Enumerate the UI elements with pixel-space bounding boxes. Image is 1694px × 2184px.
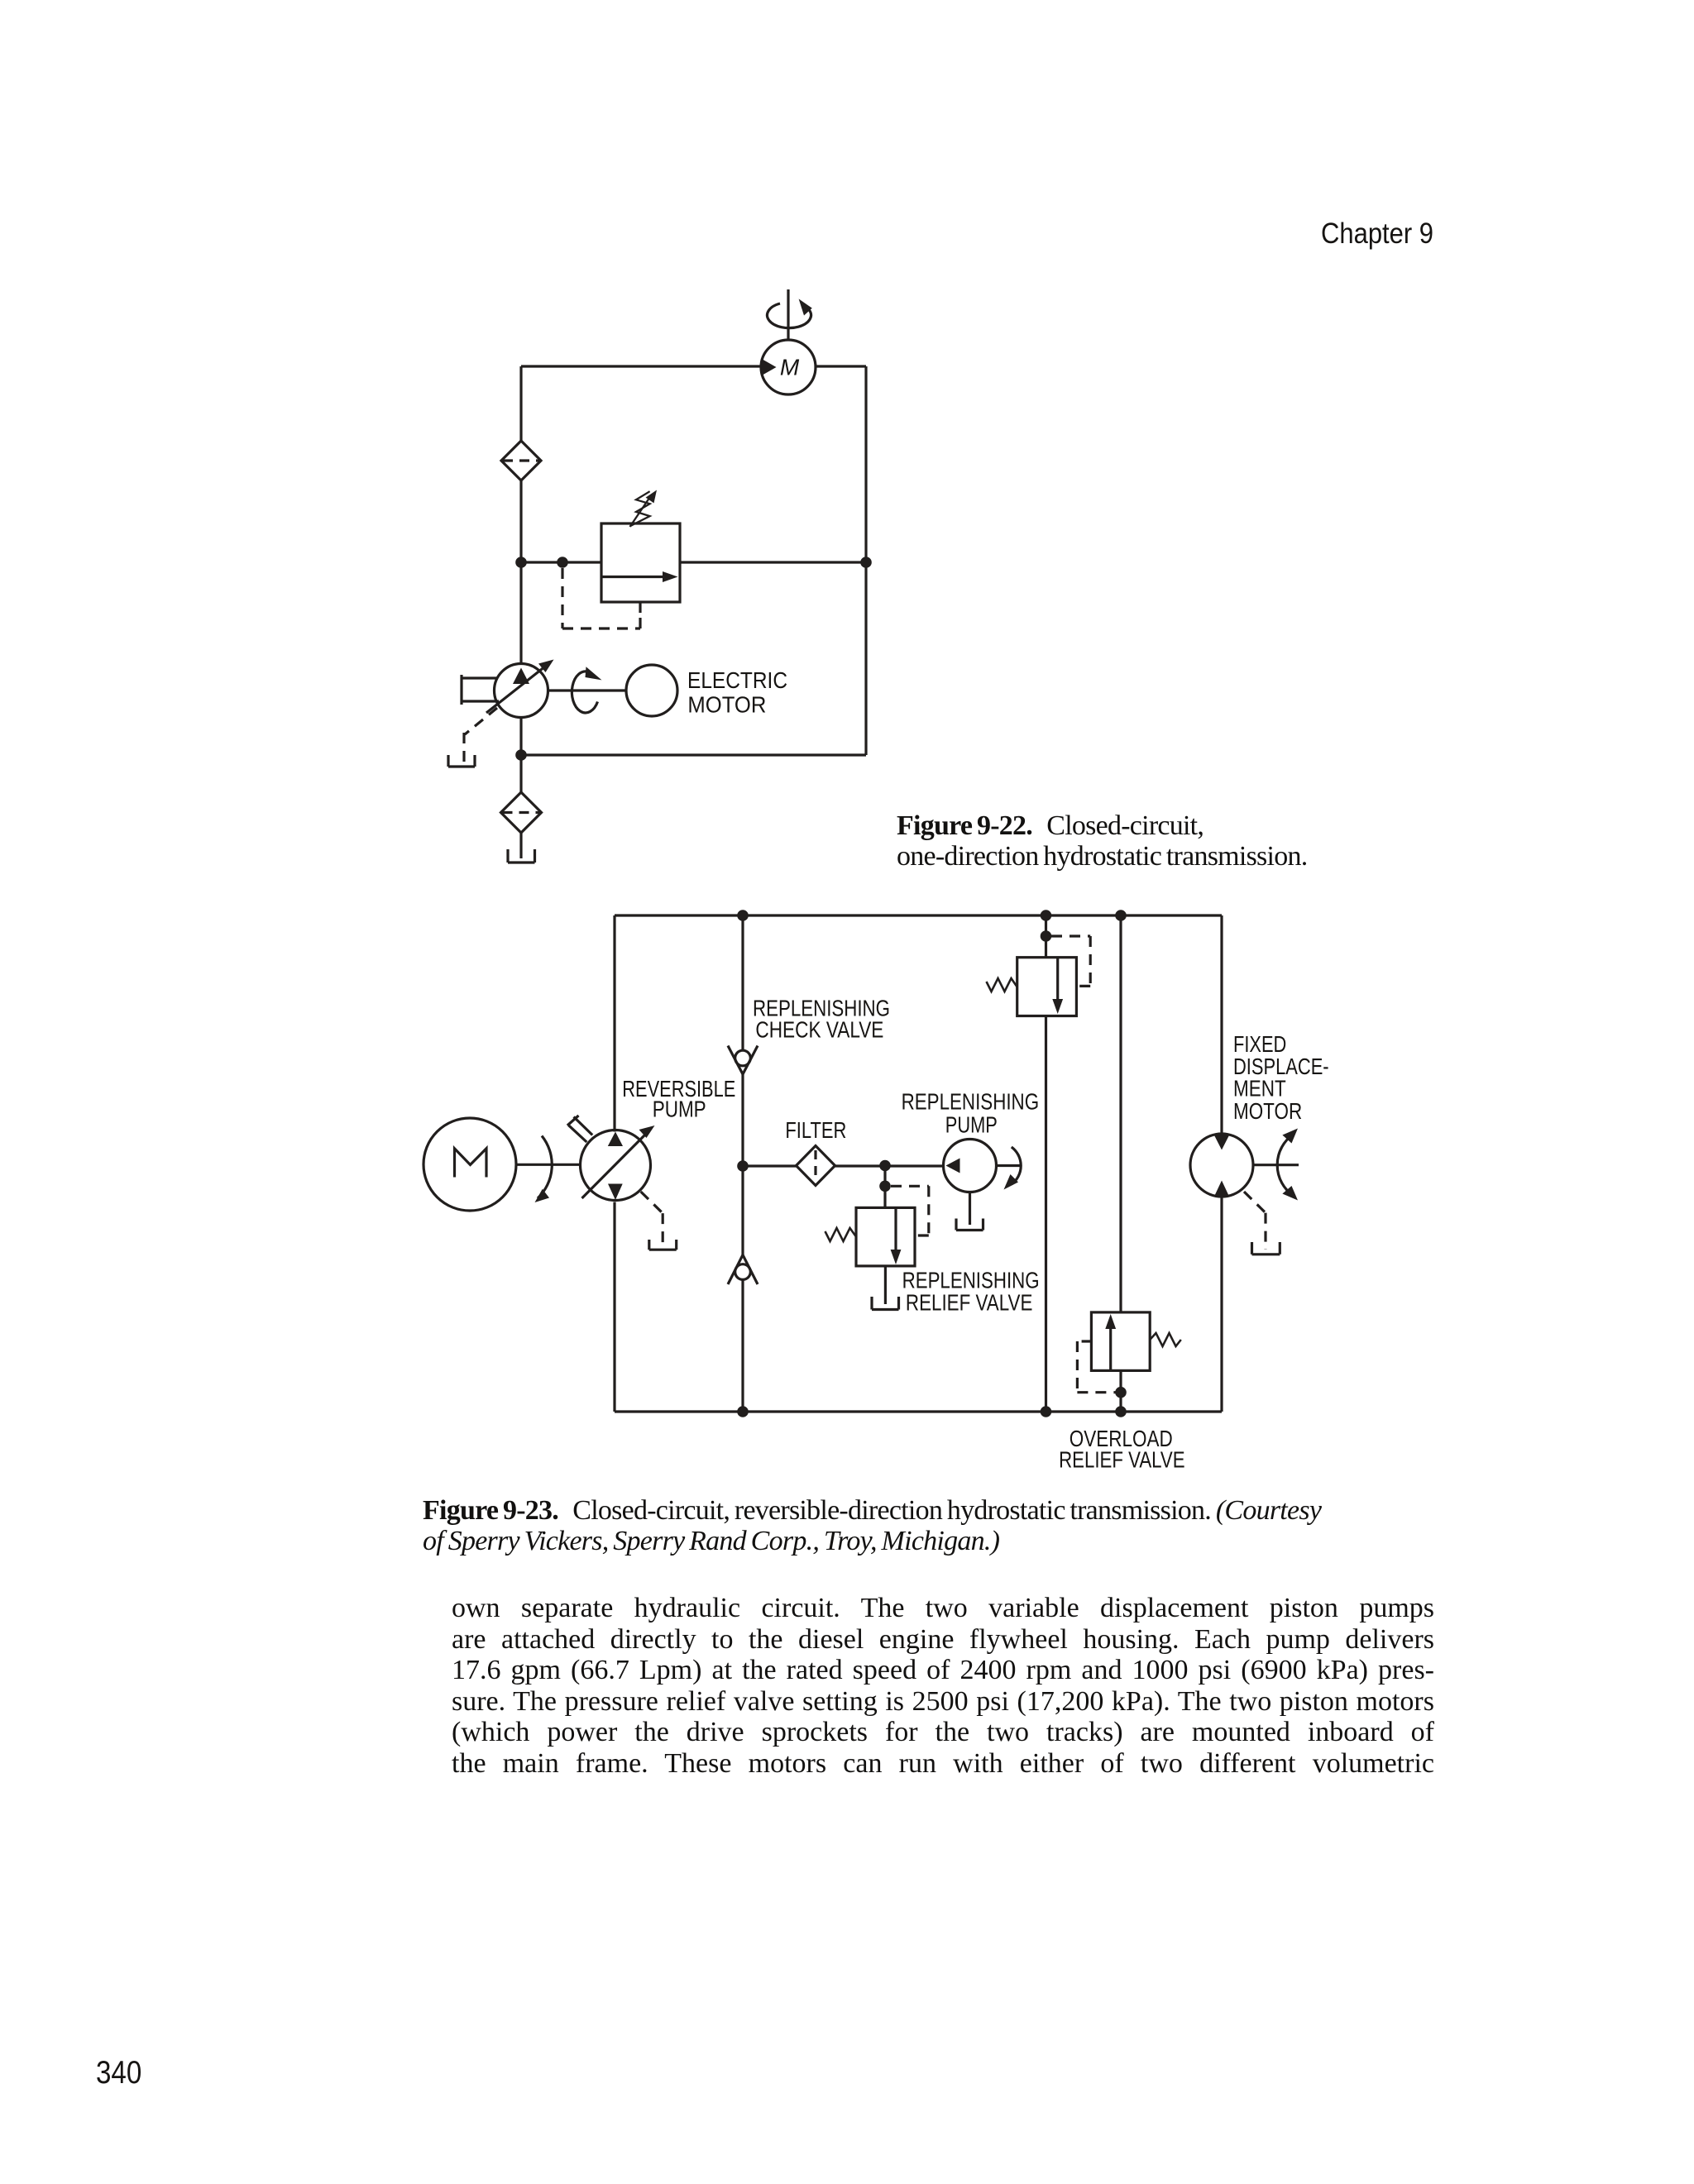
running head "Chapter 9" <box>1321 217 1433 251</box>
pump case-drain dashed line (Fig 9-22) <box>464 708 497 762</box>
motor-to-pump shaft (Fig 9-23) <box>516 1164 580 1166</box>
junction node pilot tap above replenishing relief valve (Fig 9-23) <box>879 1181 891 1192</box>
page number 340 <box>96 2055 141 2091</box>
wire: port relief leg x=1264.5 <box>1045 915 1047 1412</box>
wire: relief-valve branch right segment y=680 <box>680 561 866 563</box>
wire: left vertical supply line (Fig 9-22) x=630 <box>519 366 522 857</box>
junction node bottom return (Fig 9-22) <box>515 749 527 761</box>
wire: top horizontal line from motor to right leg <box>816 365 866 367</box>
svg-text:PUMP: PUMP <box>945 1112 998 1138</box>
reservoir tank for replenishing pump (Fig 9-23) <box>956 1219 983 1231</box>
electric motor circle (Fig 9-22) <box>626 665 677 716</box>
junction node pilot return on overload leg (Fig 9-23) <box>1115 1387 1127 1398</box>
relief valve envelope (Fig 9-22) <box>601 523 680 602</box>
junction nodes on main loop bottom line (Fig 9-23) <box>737 1406 749 1417</box>
label: REPLENISHING CHECK VALVE <box>753 996 890 1043</box>
junction node pilot tap on port relief leg (Fig 9-23) <box>1041 930 1052 942</box>
pump drive-shaft clevis symbol (Fig 9-22) <box>462 675 499 705</box>
rotation arrow on drive shaft (Fig 9-23) <box>535 1136 553 1203</box>
replenishing relief valve drain pipe (Fig 9-23) <box>884 1266 887 1304</box>
label: REVERSIBLE PUMP <box>622 1076 735 1122</box>
svg-text:M: M <box>780 355 800 380</box>
pump-to-motor shaft line (Fig 9-22) <box>548 689 626 691</box>
svg-text:PUMP: PUMP <box>653 1097 706 1122</box>
junction node on supply at relief branch (Fig 9-22) <box>515 557 527 568</box>
junction nodes on main loop top line (Fig 9-23) <box>737 910 749 921</box>
motor output shaft (Fig 9-22) <box>787 289 789 340</box>
filter (Fig 9-23) <box>797 1146 835 1186</box>
fixed motor case-drain dashed line (Fig 9-23) <box>1244 1192 1266 1250</box>
rotation arrow on pump shaft (Fig 9-22) <box>572 667 601 713</box>
wire: relief-valve branch left segment y=680 <box>521 561 601 563</box>
overload relief valve internal arrow (Fig 9-23) <box>1105 1314 1116 1370</box>
label: REPLENISHING RELIEF VALVE <box>902 1267 1040 1315</box>
body paragraph <box>452 1593 1434 1780</box>
label: FILTER <box>785 1117 846 1143</box>
label: FIXED DISPLACE- MENT MOTOR <box>1233 1031 1329 1124</box>
wire: main loop bottom line (Fig 9-23) y=1707 <box>615 1410 1222 1412</box>
reservoir tank for reversible pump drain (Fig 9-23) <box>649 1240 677 1250</box>
rotation arrow on replenishing pump (Fig 9-23) <box>1004 1147 1022 1190</box>
svg-text:FILTER: FILTER <box>785 1117 846 1143</box>
port relief valve envelope (top right, Fig 9-23) <box>1017 958 1077 1016</box>
label: REPLENISHING PUMP <box>902 1089 1040 1138</box>
electric drive motor M (Fig 9-23) <box>423 1118 516 1211</box>
svg-text:CHECK VALVE: CHECK VALVE <box>755 1016 883 1042</box>
junction node check-valve line / replenishing line (Fig 9-23) <box>737 1160 749 1172</box>
filter/strainer (top, Fig 9-22) <box>501 441 541 480</box>
replenishing relief valve internal arrow (Fig 9-23) <box>891 1207 902 1264</box>
replenishing relief valve envelope (Fig 9-23) <box>856 1207 915 1266</box>
port relief valve internal arrow (Fig 9-23) <box>1052 958 1063 1014</box>
label: OVERLOAD RELIEF VALVE <box>1059 1426 1185 1473</box>
reservoir tank for replenishing relief valve (Fig 9-23) <box>872 1297 899 1310</box>
wire: branch down to replenishing relief valve <box>883 1166 886 1208</box>
replenishing check valve (top, Fig 9-23) <box>728 1046 758 1075</box>
overload relief valve envelope (Fig 9-23) <box>1091 1312 1150 1371</box>
relief valve drain pin (Fig 9-22) <box>639 602 641 613</box>
wire: right vertical return line x=1047 <box>864 366 867 755</box>
svg-text:RELIEF VALVE: RELIEF VALVE <box>1059 1446 1185 1472</box>
overload relief valve spring (Fig 9-23) <box>1150 1333 1181 1346</box>
reversible pump case-drain dashed line (Fig 9-23) <box>641 1192 663 1245</box>
variable displacement pump (Fig 9-22) <box>486 660 554 718</box>
junction node replenishing line / relief tap (Fig 9-23) <box>879 1160 891 1172</box>
fixed displacement motor (Fig 9-23) <box>1190 1134 1253 1197</box>
wire: overload relief leg x=1355 <box>1119 915 1122 1412</box>
replenishing pump (Fig 9-23) <box>944 1140 997 1192</box>
caption Figure 9-23 <box>423 1495 1448 1557</box>
wire: replenishing supply line y=1410 <box>743 1164 944 1167</box>
reversible pump (Fig 9-23) <box>581 1125 655 1201</box>
wire: main loop left leg through reversible pump <box>613 915 615 1412</box>
filter/strainer (bottom, Fig 9-22) <box>501 792 542 833</box>
relief valve adjustable spring symbol (Fig 9-22) <box>630 490 658 528</box>
bidirectional rotation arrows on motor shaft (Fig 9-23) <box>1277 1129 1298 1201</box>
port relief valve spring (Fig 9-23) <box>987 978 1017 992</box>
pilot line (dashed) from upstream node to relief valve bottom (Fig 9-22) <box>562 568 640 628</box>
junction node right leg at relief branch (Fig 9-22) <box>860 557 872 568</box>
reservoir tank (bottom, Fig 9-22) <box>508 849 535 863</box>
reservoir tank for pump drain (Fig 9-22) <box>448 755 475 767</box>
rotation arrow around motor shaft (Fig 9-22) <box>768 299 812 327</box>
svg-text:MOTOR: MOTOR <box>687 691 766 717</box>
wire: main loop right leg through fixed motor <box>1220 915 1223 1412</box>
reservoir tank for motor drain (Fig 9-23) <box>1252 1242 1280 1254</box>
wire: bottom horizontal return line y=913 <box>521 753 866 756</box>
pilot line (dashed) of overload relief valve (Fig 9-23) <box>1077 1341 1116 1393</box>
replenishing pump suction pipe (Fig 9-23) <box>969 1192 971 1226</box>
reversible pump shaft key symbol (Fig 9-23) <box>567 1116 592 1142</box>
label: ELECTRIC MOTOR <box>687 667 787 717</box>
pilot line (dashed) of replenishing relief valve (Fig 9-23) <box>891 1186 929 1235</box>
fixed motor output shaft (Fig 9-23) <box>1253 1164 1299 1166</box>
hydraulic motor M (Fig 9-22) <box>761 340 816 394</box>
wire: replenishing check-valve line x=898 <box>741 915 744 1412</box>
replenishing check valve (bottom, Fig 9-23) <box>728 1255 758 1285</box>
replenishing relief valve spring (Fig 9-23) <box>825 1228 857 1241</box>
caption Figure 9-22 <box>897 810 1360 872</box>
pilot line (dashed) of port relief valve (Fig 9-23) <box>1051 936 1090 986</box>
svg-text:RELIEF VALVE: RELIEF VALVE <box>906 1289 1033 1315</box>
svg-text:REPLENISHING: REPLENISHING <box>902 1089 1040 1115</box>
svg-text:ELECTRIC: ELECTRIC <box>687 667 787 693</box>
wire: main loop top line (Fig 9-23) y=1107 <box>615 914 1222 916</box>
junction node pilot tap (Fig 9-22) <box>557 557 568 568</box>
replenishing pump shaft stub (Fig 9-23) <box>997 1164 1022 1167</box>
wire: top horizontal line to hydraulic motor <box>521 365 761 367</box>
relief valve internal flow-path arrow (Fig 9-22) <box>601 571 678 582</box>
svg-text:MOTOR: MOTOR <box>1233 1098 1302 1124</box>
